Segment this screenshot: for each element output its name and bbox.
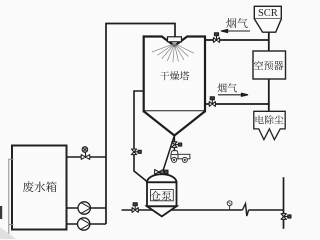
wire: feed water riser and top run to nozzle <box>106 24 175 225</box>
scan artifact bottom-left corner <box>0 227 16 239</box>
arrow: flue gas flow right <box>218 93 248 96</box>
wire: cone discharge diagonal to bin pump <box>161 136 174 177</box>
wire: tank top outlet line <box>67 156 107 158</box>
wire: tower flue gas outlet line <box>205 103 270 105</box>
label: label 空预器 <box>254 61 283 70</box>
pipe break symbol <box>242 204 248 217</box>
box: electrostatic precipitator 电除尘 with hopper zigzag <box>254 111 285 139</box>
box: air preheater 空预器 <box>253 51 286 79</box>
label box 仓泵 <box>151 190 174 201</box>
arrow: flue gas flow left <box>221 29 250 32</box>
instrument: pressure gauge <box>227 201 232 210</box>
vessel: bin pump cone <box>147 206 177 216</box>
spray fan lines <box>152 44 194 63</box>
label: label 电除尘 <box>256 115 284 124</box>
wire: preheater to ESP <box>268 79 270 112</box>
pump P2 <box>78 218 90 230</box>
label: label 烟气 (flue gas, inlet) <box>226 18 247 28</box>
label: tank label 废水箱 <box>23 181 57 192</box>
tank: wastewater tank 废水箱 <box>12 146 67 230</box>
level gauge on tank <box>9 159 14 233</box>
valve on right branch <box>281 214 291 220</box>
valve on truck discharge <box>172 142 182 148</box>
vessel: drying tower bottom cone <box>144 111 205 135</box>
valve on conveying air line <box>132 203 138 213</box>
svg-text:SCR: SCR <box>258 8 278 19</box>
label: tower label 干燥塔 <box>160 71 189 80</box>
wire: SCR downcomer <box>268 32 270 51</box>
label: label 仓泵 <box>151 191 172 201</box>
valve on tower outlet line <box>209 97 215 107</box>
wire: cone discharge to truck <box>173 136 175 152</box>
vessel: drying tower 干燥塔 body with top notch <box>144 37 205 112</box>
scan artifact left edge <box>0 206 2 219</box>
funnel under SCR <box>254 19 281 32</box>
wire: pump suction/discharge line 1 <box>67 207 107 209</box>
wire: conveying air line (right part) <box>249 209 284 211</box>
valve on tank outlet (handwheel) <box>81 147 90 160</box>
box: SCR <box>254 6 281 18</box>
vessel: bin pump 仓泵 dome <box>147 174 177 182</box>
spray nozzle box at tower top <box>168 37 182 42</box>
vessel: bin pump body <box>147 182 177 206</box>
truck (ash truck) icon <box>171 151 190 163</box>
valve on side offtake line <box>131 149 141 155</box>
pump P1 <box>78 202 90 214</box>
valve on flue gas inlet line <box>213 33 219 43</box>
wire: pump suction/discharge line 2 <box>67 223 107 225</box>
wire: tower side offtake to bin pump <box>134 91 147 182</box>
label: label 烟气 (flue gas, outlet) <box>218 83 237 92</box>
wire: conveying air line (left part) <box>122 209 243 211</box>
wire: right vertical branch <box>283 177 285 229</box>
wire: flue gas line to tower top <box>205 39 269 41</box>
valve at bin pump inlet <box>155 170 168 175</box>
